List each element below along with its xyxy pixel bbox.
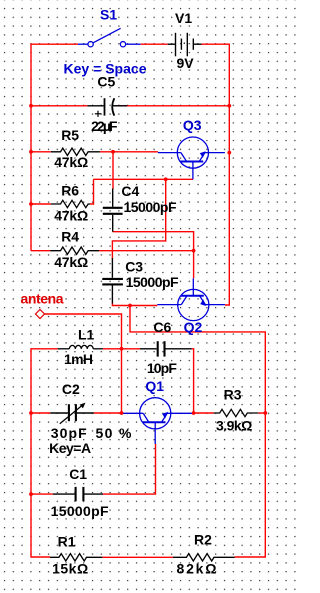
svg-text:47kΩ: 47kΩ xyxy=(54,207,88,223)
svg-text:R4: R4 xyxy=(61,228,79,244)
junction Q3 base C3 xyxy=(164,177,168,181)
wire node to C3 top xyxy=(112,179,165,259)
capacitor C2 variable xyxy=(50,403,94,424)
svg-text:9V: 9V xyxy=(177,55,195,71)
wire C6 left xyxy=(122,348,140,350)
wire Q1 right to R3 xyxy=(193,412,214,414)
svg-text:R3: R3 xyxy=(224,386,242,402)
wire C1 left xyxy=(31,493,53,495)
wire battery to right rail down to Q2 right xyxy=(202,44,230,305)
junction L1 C6 antena xyxy=(120,347,124,351)
transistor Q3 xyxy=(158,137,225,179)
wire C2 left xyxy=(31,412,50,414)
junction R5 left rail xyxy=(29,150,33,154)
wire top rail and left rail upper xyxy=(31,44,78,251)
junction C5 right rail xyxy=(227,104,231,108)
svg-text:C5: C5 xyxy=(97,73,115,89)
svg-text:Q3: Q3 xyxy=(183,117,202,133)
wire Q2 node down and across to R3 right, down to R2 right xyxy=(130,306,265,558)
svg-text:C4: C4 xyxy=(121,183,139,199)
node antena xyxy=(36,310,45,319)
resistor R5 xyxy=(51,148,100,155)
wire Q1 base down to C1 right xyxy=(103,444,156,494)
wire C2 right to junction xyxy=(94,412,122,414)
svg-text:15000pF: 15000pF xyxy=(126,274,179,290)
capacitor C5 xyxy=(87,98,127,117)
wire L1 right xyxy=(103,348,122,350)
svg-text:50 %: 50 % xyxy=(96,425,133,441)
wire R3 right xyxy=(258,412,265,414)
svg-text:R1: R1 xyxy=(58,534,76,550)
wire Q3 base horizontal xyxy=(94,178,194,180)
junction C2 Q1 base node xyxy=(120,411,124,415)
wire left rail lower xyxy=(31,349,58,557)
svg-text:Key=A: Key=A xyxy=(49,440,91,456)
resistor R3 xyxy=(214,409,259,416)
svg-text:C6: C6 xyxy=(153,319,171,335)
wire antena to L1 C6 junction down to C2 xyxy=(45,314,122,413)
junction C5 left rail xyxy=(29,104,33,108)
resistor R2 xyxy=(173,554,235,561)
svg-text:30pF: 30pF xyxy=(51,425,87,441)
svg-text:10pF: 10pF xyxy=(147,360,177,376)
wire R6 left xyxy=(31,203,51,205)
switch S1 xyxy=(78,28,141,47)
capacitor C1 xyxy=(53,487,103,501)
capacitor C4 xyxy=(103,189,123,232)
svg-text:47kΩ: 47kΩ xyxy=(54,254,88,270)
wire R5 junction down to C4 top xyxy=(112,152,114,189)
junction Q1 right C6 xyxy=(192,411,196,415)
wire R4 left xyxy=(31,250,50,252)
wire C6 right down to Q1 right node xyxy=(192,349,194,413)
svg-text:C1: C1 xyxy=(69,466,87,482)
svg-text:15000pF: 15000pF xyxy=(51,503,109,519)
svg-text:Q2: Q2 xyxy=(184,319,203,335)
resistor R6 xyxy=(51,200,90,207)
wire C4 bottom to Q2 base xyxy=(113,232,194,279)
svg-text:Q1: Q1 xyxy=(145,378,164,394)
junction R5 C4 xyxy=(111,150,115,154)
svg-text:1mH: 1mH xyxy=(64,351,93,367)
capacitor C3 xyxy=(102,258,123,304)
svg-text:C2: C2 xyxy=(62,381,80,397)
svg-text:3.9kΩ: 3.9kΩ xyxy=(216,418,252,434)
junction R6 left rail xyxy=(29,202,33,206)
wire R1 to R2 xyxy=(102,556,172,558)
svg-text:R2: R2 xyxy=(194,532,212,548)
junction C2 left rail xyxy=(29,411,33,415)
svg-text:R5: R5 xyxy=(61,127,79,143)
svg-text:R6: R6 xyxy=(61,183,79,199)
transistor Q1 xyxy=(122,398,193,444)
svg-text:antena: antena xyxy=(21,291,64,307)
wire R5 to Q3 xyxy=(100,151,158,153)
capacitor C6 xyxy=(140,341,192,356)
svg-text:82kΩ: 82kΩ xyxy=(177,561,217,577)
junction C3 Q2 left xyxy=(128,304,132,308)
wire C5 right xyxy=(115,105,230,107)
svg-text:15kΩ: 15kΩ xyxy=(52,561,88,577)
junction R3 right xyxy=(263,411,267,415)
svg-text:15000pF: 15000pF xyxy=(124,199,177,215)
svg-text:S1: S1 xyxy=(100,6,117,22)
wire R5 left xyxy=(31,151,51,153)
wire C3 bottom to Q2 left xyxy=(112,303,157,306)
junction C1 left rail xyxy=(29,492,33,496)
wire switch to battery xyxy=(141,43,168,45)
wire R4 right to Q2 base line xyxy=(99,250,194,252)
junction Q3 right rail xyxy=(227,151,231,155)
svg-text:V1: V1 xyxy=(175,10,192,26)
battery V1 xyxy=(168,33,202,57)
resistor R4 xyxy=(50,247,99,254)
resistor R1 xyxy=(50,554,102,561)
svg-text:47kΩ: 47kΩ xyxy=(54,154,88,170)
svg-text:L1: L1 xyxy=(78,326,95,342)
transistor Q2 xyxy=(157,278,225,320)
junction R4 Q2 base xyxy=(192,249,196,253)
svg-text:C3: C3 xyxy=(125,259,143,275)
inductor L1 xyxy=(58,345,103,348)
wire C5 left xyxy=(31,105,87,107)
svg-text:22µF: 22µF xyxy=(91,118,118,134)
wire R6 right up to Q3 base wire xyxy=(90,179,94,204)
